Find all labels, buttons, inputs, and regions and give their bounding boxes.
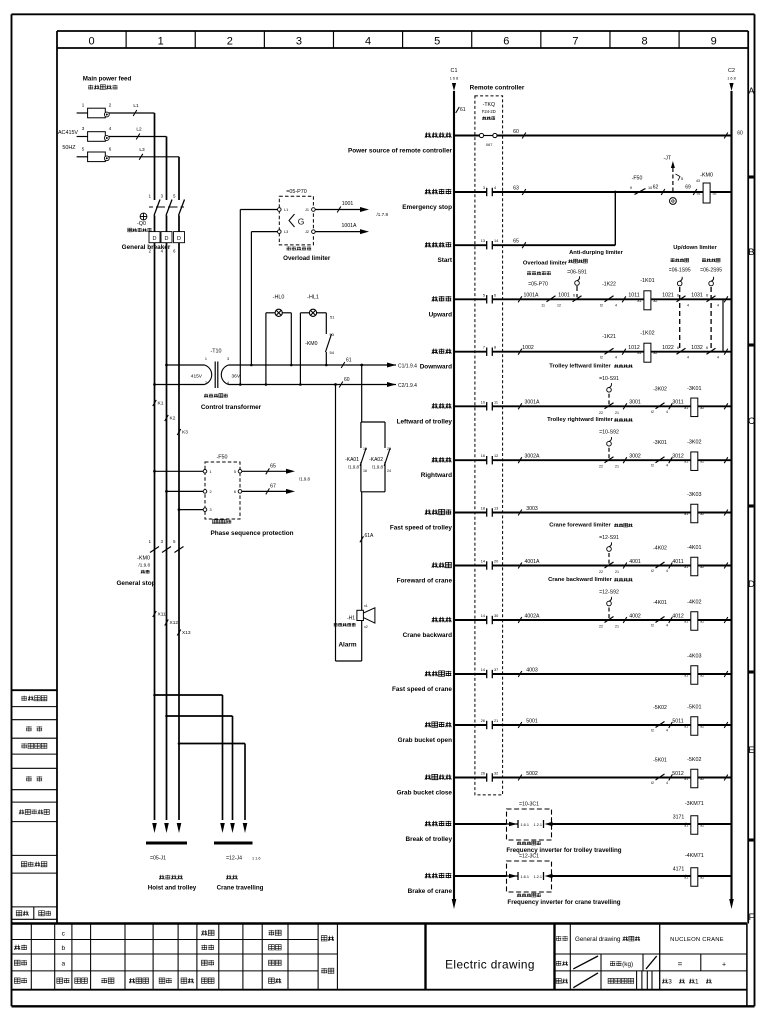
svg-text:-JT: -JT	[664, 156, 672, 162]
svg-text:16: 16	[363, 469, 367, 473]
svg-text:14: 14	[481, 560, 485, 564]
svg-text:1012: 1012	[628, 345, 640, 351]
svg-text:4: 4	[666, 569, 668, 573]
svg-text:D: D	[153, 236, 157, 242]
svg-text:53: 53	[330, 332, 335, 337]
svg-text:6: 6	[706, 346, 708, 350]
svg-text:-3K02: -3K02	[687, 440, 701, 446]
svg-text:4: 4	[687, 303, 689, 307]
svg-text:X13: X13	[182, 630, 191, 636]
svg-text:Control transformer: Control transformer	[201, 404, 262, 411]
svg-text:a1: a1	[684, 777, 688, 781]
svg-text:32: 32	[494, 772, 498, 776]
svg-text:-4KM71: -4KM71	[685, 853, 704, 859]
svg-text:=05-P70: =05-P70	[528, 282, 548, 288]
svg-text:a1: a1	[684, 824, 688, 828]
svg-text:C2/1.9.4: C2/1.9.4	[398, 383, 417, 389]
svg-text:1002: 1002	[522, 345, 534, 351]
svg-text:/1.9.8: /1.9.8	[372, 465, 384, 470]
svg-text:6: 6	[573, 294, 575, 298]
svg-text:5: 5	[483, 293, 485, 297]
svg-text:3: 3	[227, 357, 229, 361]
svg-text:4002A: 4002A	[524, 613, 540, 619]
svg-text:6: 6	[706, 294, 708, 298]
svg-text:4: 4	[666, 624, 668, 628]
svg-text:J2: J2	[305, 230, 309, 234]
svg-text:21: 21	[615, 411, 619, 415]
svg-text:Start: Start	[437, 257, 452, 264]
svg-text:3001A: 3001A	[524, 400, 540, 406]
svg-text:2: 2	[205, 381, 207, 385]
svg-text:26: 26	[481, 719, 485, 723]
svg-text:22: 22	[599, 465, 603, 469]
svg-text:-1K02: -1K02	[640, 331, 654, 337]
svg-text:-5K01: -5K01	[687, 705, 701, 711]
svg-text:X67: X67	[486, 143, 493, 147]
svg-text:5: 5	[234, 470, 236, 474]
svg-text:60: 60	[513, 129, 519, 135]
svg-text:Rightward: Rightward	[421, 472, 452, 479]
svg-text:3003: 3003	[526, 506, 538, 512]
svg-text:5002: 5002	[526, 771, 538, 777]
svg-text:a2: a2	[700, 725, 704, 729]
svg-text:8: 8	[641, 36, 647, 48]
svg-text:4: 4	[666, 781, 668, 785]
svg-text:-4K02: -4K02	[653, 546, 667, 552]
svg-text:3002: 3002	[629, 454, 641, 460]
svg-text:/1.9.8: /1.9.8	[299, 477, 311, 482]
svg-text:4: 4	[666, 729, 668, 733]
svg-text:t2: t2	[651, 569, 654, 573]
svg-text:-1K01: -1K01	[640, 278, 654, 284]
svg-text:1001: 1001	[342, 201, 354, 207]
svg-text:8: 8	[494, 346, 496, 350]
svg-text:=12-3C1: =12-3C1	[519, 854, 539, 860]
svg-text:61: 61	[460, 107, 466, 113]
svg-text:Overload limiter: Overload limiter	[283, 255, 331, 262]
svg-text:Brake of crane: Brake of crane	[408, 888, 453, 895]
svg-text:4001A: 4001A	[524, 559, 540, 565]
svg-text:F24-2D: F24-2D	[482, 109, 496, 114]
svg-text:Phase sequence protection: Phase sequence protection	[210, 530, 293, 537]
svg-text:6: 6	[677, 346, 679, 350]
svg-text:-1K21: -1K21	[602, 334, 616, 340]
svg-text:1: 1	[695, 979, 699, 986]
svg-text:3: 3	[668, 979, 672, 986]
svg-text:51: 51	[330, 315, 335, 320]
svg-text:J1: J1	[305, 208, 309, 212]
svg-text:t2: t2	[651, 410, 654, 414]
svg-text:2: 2	[210, 490, 212, 494]
svg-text:6: 6	[677, 294, 679, 298]
svg-text:4011: 4011	[672, 559, 683, 565]
svg-text:26: 26	[481, 772, 485, 776]
svg-text:D: D	[177, 236, 181, 242]
svg-text:3001: 3001	[629, 400, 641, 406]
svg-text:=12-S91: =12-S91	[599, 535, 619, 541]
svg-text:a1: a1	[637, 351, 641, 355]
svg-text:K2: K2	[170, 416, 176, 422]
svg-text:-3K03: -3K03	[687, 492, 701, 498]
svg-text:K3: K3	[182, 430, 188, 436]
svg-text:3171: 3171	[673, 815, 685, 821]
svg-text:16: 16	[481, 454, 485, 458]
svg-text:-HL0: -HL0	[273, 295, 285, 301]
svg-text:a: a	[61, 961, 65, 968]
svg-text:10: 10	[481, 400, 485, 404]
svg-text:a1: a1	[684, 725, 688, 729]
svg-text:65: 65	[513, 239, 519, 245]
svg-text:=10-S91: =10-S91	[599, 376, 619, 382]
svg-text:1001A: 1001A	[341, 223, 357, 229]
svg-text:23: 23	[387, 447, 391, 451]
svg-text:4: 4	[227, 381, 229, 385]
svg-text:L2: L2	[136, 127, 142, 133]
svg-text:36V: 36V	[232, 374, 241, 380]
svg-text:-4K01: -4K01	[653, 600, 667, 606]
svg-text:x2: x2	[364, 625, 368, 629]
svg-text:1: 1	[205, 357, 207, 361]
svg-text:61A: 61A	[365, 533, 375, 539]
svg-text:9: 9	[630, 186, 632, 190]
svg-text:AC415V: AC415V	[58, 130, 78, 136]
svg-text:14: 14	[481, 668, 485, 672]
svg-text:12: 12	[557, 303, 561, 307]
svg-text:Leftward of trolley: Leftward of trolley	[397, 418, 453, 425]
svg-text:-KM0: -KM0	[305, 341, 318, 347]
svg-text:Alarm: Alarm	[338, 642, 356, 649]
svg-text:a1: a1	[637, 299, 641, 303]
svg-text:20: 20	[494, 560, 498, 564]
svg-text:18: 18	[481, 507, 485, 511]
svg-text:-4K03: -4K03	[687, 654, 701, 660]
svg-text:=06-S91: =06-S91	[567, 269, 587, 275]
svg-text:1: 1	[210, 470, 212, 474]
svg-text:NUCLEON CRANE: NUCLEON CRANE	[670, 937, 724, 943]
svg-text:-TKQ: -TKQ	[483, 102, 495, 108]
svg-text:3: 3	[296, 36, 302, 48]
svg-text:Crane travelling: Crane travelling	[217, 885, 264, 892]
svg-text:=05-J1: =05-J1	[150, 856, 166, 862]
svg-text:4: 4	[666, 464, 668, 468]
svg-text:21: 21	[615, 570, 619, 574]
svg-text:Crane backward: Crane backward	[403, 632, 452, 639]
svg-text:C: C	[748, 416, 755, 426]
svg-text:1 6 8: 1 6 8	[727, 77, 735, 81]
svg-text:-5K01: -5K01	[653, 758, 667, 764]
svg-text:Fast speed of trolley: Fast speed of trolley	[390, 525, 453, 532]
svg-text:Emergency stop: Emergency stop	[402, 204, 452, 211]
svg-text:-H1: -H1	[347, 616, 355, 622]
svg-text:1.2.1: 1.2.1	[534, 875, 542, 879]
svg-text:L3: L3	[139, 147, 145, 153]
svg-text:4001: 4001	[629, 559, 641, 565]
svg-text:67: 67	[270, 484, 276, 490]
svg-text:13: 13	[494, 507, 498, 511]
svg-text:+: +	[722, 962, 726, 969]
svg-text:5: 5	[434, 36, 440, 48]
svg-text:(kg): (kg)	[622, 961, 633, 968]
svg-text:4: 4	[717, 303, 719, 307]
svg-text:50HZ: 50HZ	[62, 145, 76, 151]
svg-text:7: 7	[483, 346, 485, 350]
svg-text:21: 21	[615, 625, 619, 629]
svg-text:-3K01: -3K01	[653, 440, 667, 446]
svg-text:=12-S92: =12-S92	[599, 590, 619, 596]
svg-text:General stop: General stop	[116, 580, 155, 587]
svg-text:General drawing: General drawing	[575, 936, 621, 943]
svg-text:6: 6	[234, 490, 236, 494]
svg-text:F: F	[749, 912, 755, 922]
svg-text:-4K02: -4K02	[687, 600, 701, 606]
svg-text:13: 13	[481, 239, 485, 243]
svg-text:/1.9.8: /1.9.8	[348, 465, 360, 470]
svg-text:10: 10	[648, 186, 652, 190]
svg-text:1011: 1011	[628, 293, 639, 299]
svg-text:61: 61	[346, 358, 352, 364]
svg-text:=06-1S95: =06-1S95	[669, 268, 691, 274]
svg-text:5012: 5012	[672, 771, 684, 777]
svg-text:22: 22	[599, 625, 603, 629]
svg-text:1021: 1021	[662, 293, 674, 299]
svg-text:G: G	[298, 217, 305, 227]
svg-text:a2: a2	[700, 565, 704, 569]
svg-text:L1: L1	[284, 208, 288, 212]
svg-text:a2: a2	[713, 192, 717, 196]
svg-text:4: 4	[615, 356, 617, 360]
svg-text:415V: 415V	[191, 374, 203, 380]
svg-text:Foreward of crane: Foreward of crane	[397, 578, 453, 585]
svg-text:a2: a2	[700, 620, 704, 624]
svg-text:60: 60	[737, 131, 743, 137]
svg-text:Power source of remote control: Power source of remote controller	[348, 148, 453, 155]
svg-text:Trolley leftward limiter: Trolley leftward limiter	[549, 363, 611, 369]
svg-text:b: b	[61, 945, 65, 952]
svg-text:C1: C1	[451, 68, 458, 74]
svg-text:11: 11	[494, 400, 498, 404]
svg-text:a1: a1	[684, 876, 688, 880]
svg-text:-Q0: -Q0	[137, 221, 146, 227]
svg-text:3012: 3012	[672, 454, 684, 460]
svg-text:12: 12	[494, 454, 498, 458]
svg-text:21: 21	[615, 465, 619, 469]
svg-text:K1: K1	[158, 401, 164, 407]
svg-text:Upward: Upward	[429, 311, 453, 318]
svg-text:/1.7.8: /1.7.8	[377, 212, 389, 217]
svg-text:14: 14	[481, 614, 485, 618]
svg-text:5001: 5001	[526, 718, 538, 724]
svg-text:a1: a1	[684, 620, 688, 624]
svg-text:=05-P70: =05-P70	[286, 189, 307, 195]
svg-text:C2: C2	[728, 68, 735, 74]
svg-text:24: 24	[387, 469, 391, 473]
svg-text:t2: t2	[651, 624, 654, 628]
svg-text:43: 43	[696, 179, 700, 183]
svg-text:4: 4	[687, 356, 689, 360]
svg-text:-5K02: -5K02	[653, 705, 667, 711]
svg-text:X11: X11	[158, 612, 167, 618]
svg-text:4012: 4012	[672, 613, 684, 619]
svg-text:54: 54	[330, 350, 335, 355]
svg-text:Remote controller: Remote controller	[470, 85, 525, 92]
svg-text:D: D	[165, 236, 169, 242]
svg-text:a1: a1	[684, 460, 688, 464]
svg-text:Downward: Downward	[420, 364, 452, 371]
svg-text:-HL1: -HL1	[307, 295, 319, 301]
svg-text:7: 7	[572, 36, 578, 48]
svg-text:-KM0: -KM0	[137, 556, 150, 562]
svg-text:1.6.1: 1.6.1	[521, 823, 529, 827]
svg-text:a1: a1	[684, 674, 688, 678]
svg-text:5011: 5011	[672, 718, 683, 724]
svg-text:30: 30	[494, 614, 498, 618]
svg-text:15: 15	[363, 447, 367, 451]
svg-text:6: 6	[494, 293, 496, 297]
svg-text:=06-2S95: =06-2S95	[700, 268, 722, 274]
svg-text:-3KM71: -3KM71	[685, 801, 704, 807]
svg-text:65: 65	[270, 463, 276, 469]
svg-text:L1: L1	[133, 103, 139, 109]
svg-text:1 6 8: 1 6 8	[450, 77, 458, 81]
svg-text:t2: t2	[651, 729, 654, 733]
svg-text:4003: 4003	[526, 667, 538, 673]
svg-text:22: 22	[599, 411, 603, 415]
svg-text:4171: 4171	[673, 867, 685, 873]
svg-text:14: 14	[494, 239, 498, 243]
svg-text:=: =	[678, 960, 683, 969]
svg-text:1032: 1032	[691, 345, 703, 351]
svg-text:-3K02: -3K02	[653, 386, 667, 392]
svg-text:4: 4	[365, 36, 371, 48]
svg-text:Hoist and trolley: Hoist and trolley	[148, 885, 197, 892]
svg-text:4: 4	[666, 410, 668, 414]
svg-text:-KM0: -KM0	[700, 173, 713, 179]
svg-text:-F50: -F50	[632, 176, 643, 182]
svg-text:a2: a2	[700, 876, 704, 880]
svg-text:3: 3	[483, 186, 485, 190]
svg-text:=12-J4: =12-J4	[226, 856, 242, 862]
svg-text:a1: a1	[684, 406, 688, 410]
svg-text:t2: t2	[600, 303, 603, 307]
svg-text:11: 11	[541, 303, 545, 307]
svg-text:A: A	[748, 86, 754, 96]
svg-text:a2: a2	[700, 674, 704, 678]
svg-text:Electric drawing: Electric drawing	[445, 958, 535, 972]
svg-text:3002A: 3002A	[524, 454, 540, 460]
svg-text:69: 69	[685, 184, 691, 190]
svg-text:L3: L3	[284, 230, 288, 234]
svg-text:1.2.1: 1.2.1	[534, 823, 542, 827]
svg-text:0: 0	[88, 36, 94, 48]
svg-text:-KA01: -KA01	[345, 457, 359, 463]
svg-text:a2: a2	[700, 777, 704, 781]
svg-text:E: E	[748, 745, 754, 755]
svg-text:-1K22: -1K22	[602, 282, 616, 288]
svg-text:Crane foreward limiter: Crane foreward limiter	[549, 523, 611, 529]
svg-text:Main power feed: Main power feed	[83, 76, 132, 83]
svg-text:4: 4	[717, 356, 719, 360]
svg-text:/1.9.8: /1.9.8	[139, 563, 151, 568]
svg-text:-T10: -T10	[210, 349, 221, 355]
svg-text:=10-3C1: =10-3C1	[519, 802, 539, 808]
svg-text:x1: x1	[364, 604, 368, 608]
svg-text:4: 4	[494, 186, 496, 190]
svg-text:Fast speed of crane: Fast speed of crane	[392, 686, 452, 693]
svg-text:63: 63	[513, 185, 519, 191]
svg-text:a2: a2	[700, 512, 704, 516]
svg-text:t2: t2	[600, 356, 603, 360]
svg-text:Grab bucket close: Grab bucket close	[397, 790, 453, 797]
svg-text:-KA02: -KA02	[369, 457, 383, 463]
svg-text:3: 3	[210, 508, 212, 512]
svg-text:=10-S92: =10-S92	[599, 430, 619, 436]
svg-text:1001A: 1001A	[523, 293, 539, 299]
svg-text:a1: a1	[684, 565, 688, 569]
svg-text:6: 6	[503, 36, 509, 48]
svg-text:4: 4	[615, 303, 617, 307]
svg-text:a1: a1	[697, 192, 701, 196]
svg-text:62: 62	[653, 184, 659, 190]
svg-text:Overload limiter: Overload limiter	[523, 261, 568, 267]
svg-text:a2: a2	[653, 299, 657, 303]
svg-text:1.6.1: 1.6.1	[521, 875, 529, 879]
svg-text:Anti-durping limiter: Anti-durping limiter	[569, 250, 624, 256]
svg-text:1031: 1031	[691, 293, 703, 299]
svg-text:Grab bucket open: Grab bucket open	[398, 737, 452, 744]
svg-text:1022: 1022	[662, 345, 674, 351]
svg-text:t2: t2	[651, 464, 654, 468]
svg-text:a2: a2	[653, 351, 657, 355]
svg-text:21: 21	[494, 719, 498, 723]
svg-text:2: 2	[227, 36, 233, 48]
svg-text:9: 9	[711, 36, 717, 48]
svg-text:B: B	[748, 247, 754, 257]
svg-text:-5K02: -5K02	[687, 757, 701, 763]
svg-text:a1: a1	[684, 512, 688, 516]
svg-text:General breaker: General breaker	[122, 244, 171, 251]
svg-text:X12: X12	[170, 620, 179, 626]
svg-text:1: 1	[158, 36, 164, 48]
svg-text:a2: a2	[700, 460, 704, 464]
svg-text:1 1.6: 1 1.6	[252, 857, 260, 861]
svg-text:37: 37	[494, 668, 498, 672]
svg-text:t2: t2	[651, 781, 654, 785]
svg-text:Break of trolley: Break of trolley	[405, 836, 452, 843]
svg-text:Crane backward limiter: Crane backward limiter	[548, 577, 613, 583]
svg-text:22: 22	[599, 570, 603, 574]
svg-text:1001: 1001	[558, 293, 570, 299]
svg-text:-F50: -F50	[216, 455, 227, 461]
svg-text:Up/down limiter: Up/down limiter	[673, 245, 717, 251]
svg-text:a2: a2	[700, 824, 704, 828]
svg-text:-4K01: -4K01	[687, 545, 701, 551]
svg-text:C1/1.9.4: C1/1.9.4	[398, 363, 417, 369]
svg-text:a2: a2	[700, 406, 704, 410]
svg-text:Trolley rightward limiter: Trolley rightward limiter	[547, 417, 613, 423]
svg-text:D: D	[748, 579, 755, 589]
svg-text:Frequency inverter for crane t: Frequency inverter for crane travelling	[507, 899, 620, 906]
svg-text:60: 60	[344, 377, 350, 383]
svg-text:4002: 4002	[629, 613, 641, 619]
svg-text:3011: 3011	[672, 400, 683, 406]
svg-text:-3K01: -3K01	[687, 386, 701, 392]
